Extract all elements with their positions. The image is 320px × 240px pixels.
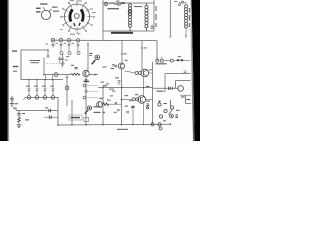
resistor R-bias bbox=[18, 117, 21, 122]
label right of coil bbox=[52, 7, 58, 8]
foot switch jack J3 bbox=[85, 106, 92, 114]
value labels on bus bbox=[56, 42, 59, 45]
left scan border bar bbox=[0, 0, 9, 141]
node bbox=[44, 79, 45, 80]
tick bbox=[87, 44, 89, 46]
wire bbox=[179, 3, 186, 5]
grid cap bbox=[47, 50, 50, 57]
node bbox=[121, 87, 123, 89]
wire bbox=[163, 60, 170, 62]
connector cluster bbox=[158, 100, 178, 130]
electrolytic cap bbox=[49, 109, 51, 112]
coupling cap C6 bbox=[75, 67, 78, 68]
label POWER TRANSFORMER bbox=[111, 32, 133, 34]
bus terminal 3 bbox=[67, 39, 70, 42]
B- line wire bbox=[16, 110, 58, 112]
wire dashed bbox=[46, 62, 66, 64]
marks bbox=[131, 106, 134, 107]
node bbox=[94, 74, 96, 76]
ground bus wire bbox=[58, 123, 170, 126]
mid vertical wire bbox=[169, 0, 171, 37]
terminal bbox=[83, 84, 86, 87]
label INPUT bbox=[13, 66, 19, 67]
marks bbox=[184, 71, 187, 72]
label right of coil bbox=[53, 11, 59, 12]
filter stack: cap bbox=[17, 111, 20, 118]
label PILOT LAMP bbox=[108, 8, 120, 9]
node bbox=[28, 79, 29, 80]
output tube V1 bbox=[141, 69, 149, 77]
cap C4 drop bbox=[77, 42, 80, 52]
terminal bbox=[83, 96, 86, 99]
terminal bbox=[178, 4, 180, 6]
labels along box right edge bbox=[155, 6, 156, 11]
label FOOT SW bbox=[94, 106, 103, 107]
label 100V bbox=[134, 6, 142, 7]
tick bbox=[121, 53, 123, 55]
marks bbox=[135, 94, 139, 95]
wire bbox=[183, 59, 190, 61]
stub bbox=[45, 75, 47, 80]
pot circle bbox=[65, 86, 69, 90]
wire bbox=[109, 103, 121, 105]
cap bbox=[85, 91, 88, 92]
marks bbox=[149, 69, 152, 70]
plate resistor R9 bbox=[103, 103, 110, 106]
collector wire bbox=[87, 42, 89, 70]
marks near bottom bbox=[146, 104, 149, 109]
antenna coil small circle A bbox=[41, 9, 51, 20]
speaker box corner bbox=[186, 95, 191, 103]
terminal bbox=[181, 1, 183, 3]
coupling vertical wire bbox=[66, 75, 68, 106]
wire bbox=[185, 28, 187, 38]
wire bbox=[143, 103, 145, 124]
switch SW on line bbox=[121, 2, 125, 4]
output tube V1 grid caps bbox=[135, 72, 138, 75]
resistor bbox=[169, 87, 173, 90]
wire bbox=[122, 98, 133, 100]
wire bbox=[173, 60, 177, 62]
output tube V2 grid caps bbox=[132, 98, 135, 101]
jack J2 with arrow bbox=[92, 55, 100, 64]
transistor Q2 bbox=[119, 63, 125, 69]
wire bbox=[18, 122, 20, 124]
bias box bbox=[84, 117, 89, 121]
stub terminal label bbox=[36, 11, 41, 12]
fuse F1 bbox=[118, 3, 121, 6]
terminal bbox=[156, 59, 159, 62]
cap on lower line bbox=[44, 116, 58, 118]
base components bbox=[112, 65, 117, 67]
stub wire bbox=[86, 85, 98, 87]
node bbox=[121, 99, 123, 101]
transistor Q1 bbox=[83, 70, 89, 76]
label 40 bbox=[15, 103, 18, 104]
node bbox=[102, 124, 104, 126]
label VOLUME CONT bbox=[30, 60, 41, 61]
node bbox=[52, 79, 54, 81]
label TREMOLO bbox=[71, 117, 81, 119]
speaker line wire bbox=[165, 73, 191, 75]
cap bbox=[58, 56, 61, 63]
label bbox=[144, 47, 147, 48]
volume pot VR1 bbox=[54, 73, 58, 77]
wire bbox=[164, 74, 166, 92]
marks bbox=[103, 102, 129, 113]
tick bbox=[185, 35, 187, 37]
terminal bbox=[160, 59, 163, 62]
tone cap ladder leg 1 bbox=[28, 80, 31, 96]
bus end terminal bbox=[151, 123, 154, 126]
stub wire bbox=[86, 91, 98, 93]
grid resistor R3 bbox=[70, 73, 80, 75]
power box outline bbox=[103, 0, 154, 40]
stub wire bbox=[86, 97, 98, 99]
screen line wire bbox=[98, 87, 153, 89]
collector wire to tube bbox=[124, 71, 135, 73]
label 6.3V bbox=[109, 3, 114, 4]
emitter chain wire bbox=[85, 77, 87, 125]
bus terminal 1 bbox=[51, 39, 54, 42]
tone row wire bbox=[25, 97, 58, 125]
label tone bbox=[156, 63, 167, 64]
label above coil bbox=[40, 3, 48, 4]
marks bbox=[175, 1, 178, 2]
right long vertical wire bbox=[152, 62, 154, 124]
stems above terminals bbox=[156, 57, 158, 59]
tremolo unit box bbox=[69, 115, 82, 120]
terminal bbox=[170, 59, 173, 62]
stub bbox=[52, 75, 54, 80]
bus node bbox=[132, 124, 134, 126]
output transformer T2 winding bbox=[185, 5, 188, 28]
node bbox=[43, 74, 45, 76]
label bbox=[103, 66, 107, 67]
label bbox=[13, 71, 17, 72]
label bbox=[116, 1, 119, 2]
wire to bus bbox=[71, 100, 73, 125]
tick bbox=[169, 36, 171, 38]
input corner wire bbox=[21, 50, 48, 80]
node bbox=[102, 87, 104, 89]
divider marks bbox=[118, 81, 121, 86]
cap C2 drop bbox=[60, 42, 63, 52]
tremolo vertical wire bbox=[132, 107, 134, 125]
vertical feed wire bbox=[102, 86, 104, 125]
out wire bbox=[89, 74, 98, 76]
bypass cap with ground bbox=[10, 96, 13, 104]
driver vertical wire bbox=[121, 40, 123, 63]
ground bbox=[17, 125, 22, 128]
label 470K bbox=[89, 53, 92, 54]
tone cap ladder leg 2 bbox=[36, 80, 39, 96]
label bbox=[13, 108, 17, 109]
switch S2 bbox=[177, 59, 180, 61]
node bbox=[36, 79, 37, 80]
cathode network below bbox=[61, 55, 64, 68]
plate feed wire bbox=[141, 40, 143, 69]
label B bbox=[103, 85, 107, 86]
wire bbox=[43, 58, 45, 75]
node J1 bbox=[47, 49, 49, 51]
bus node bbox=[85, 124, 87, 126]
label bbox=[22, 113, 25, 114]
terminal bbox=[114, 3, 116, 5]
tick bbox=[66, 77, 68, 79]
transformer T1 secondary winding bbox=[145, 3, 148, 31]
output tube V2 bbox=[138, 96, 146, 104]
cap C1 drop bbox=[52, 42, 55, 47]
bus terminal 2 bbox=[59, 39, 62, 42]
wire bbox=[149, 72, 153, 74]
output row wire bbox=[156, 41, 158, 61]
tone cap ladder leg 3 bbox=[44, 80, 47, 96]
label bbox=[157, 91, 164, 92]
wire bbox=[146, 99, 153, 101]
labels bbox=[164, 103, 167, 104]
node bbox=[121, 124, 123, 126]
bus node bbox=[143, 124, 145, 126]
tone bus wire bbox=[21, 79, 63, 81]
resistor marks bbox=[85, 79, 88, 80]
rotary switch S1 bbox=[60, 0, 95, 35]
tube V1 to V2 wire bbox=[143, 77, 145, 96]
right scan border bar bbox=[190, 0, 200, 141]
speaker line 2 wire bbox=[176, 81, 191, 88]
bus terminal 4 bbox=[76, 39, 79, 42]
heater bus wire bbox=[51, 39, 157, 41]
label MIC bbox=[12, 50, 17, 51]
node bbox=[143, 87, 145, 89]
tone cap ladder leg 4 bbox=[52, 80, 55, 96]
cap C3 drop bbox=[68, 42, 71, 52]
ground bbox=[10, 104, 14, 107]
label 12AX7 bbox=[84, 81, 90, 82]
misc value labels bbox=[101, 82, 105, 83]
vertical side labels bbox=[189, 8, 190, 13]
phase splitter tube V3 bbox=[97, 102, 103, 108]
tick bbox=[141, 47, 143, 49]
bus node bbox=[57, 124, 59, 126]
emitter wire bbox=[121, 69, 123, 125]
coil stem bbox=[43, 7, 45, 10]
transformer T1 primary winding bbox=[129, 3, 132, 31]
tick bbox=[15, 108, 17, 111]
output stage wire bbox=[153, 87, 178, 89]
stub terminal label bbox=[36, 8, 41, 9]
pilot lamp PL1 bbox=[104, 2, 108, 6]
volume pot wire bbox=[44, 74, 70, 76]
end hook bbox=[24, 97, 25, 99]
output tube V4 bbox=[178, 86, 184, 92]
terminal symbol inside box bbox=[151, 25, 153, 29]
labels bbox=[99, 98, 103, 99]
node bbox=[170, 123, 172, 125]
node bbox=[71, 124, 73, 126]
